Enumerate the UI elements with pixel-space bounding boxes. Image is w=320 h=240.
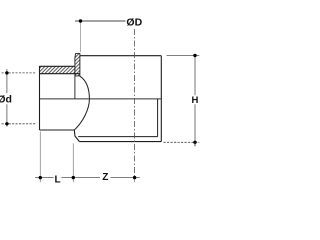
socket inner bottom	[78, 136, 157, 138]
hatched top wall band of spigot	[40, 66, 75, 73]
svg-text:L: L	[55, 174, 61, 185]
hatched collar section	[75, 54, 80, 76]
Ød bottom dot	[5, 122, 8, 125]
wire pipe outlines	[40, 56, 162, 142]
internal dome arc	[74, 76, 89, 130]
Z right dot	[133, 176, 136, 179]
H dim stub below dot	[194, 142, 196, 146]
centerline stub below Z dot	[134, 177, 136, 182]
svg-text:ØD: ØD	[126, 16, 142, 28]
spigot left end	[39, 66, 41, 130]
svg-text:Ød: Ød	[0, 93, 12, 105]
H top dot	[193, 54, 196, 57]
body bottom outer	[79, 141, 161, 143]
extension line pipe end	[39, 132, 41, 183]
ØD leader dot	[79, 19, 82, 22]
axis section line	[40, 98, 162, 100]
svg-text:Z: Z	[102, 172, 108, 183]
dimension line L / Z	[35, 132, 140, 183]
spigot bottom outer line	[40, 129, 75, 131]
extension line body face	[72, 143, 74, 182]
dimension Ød	[2, 69, 37, 127]
svg-text:H: H	[191, 95, 198, 106]
L/Z shared dot	[72, 176, 75, 179]
dimension ØD leader	[75, 21, 126, 52]
body left face	[74, 76, 76, 99]
centerline	[134, 29, 136, 177]
socket inner right	[157, 99, 159, 137]
L left dot	[39, 176, 42, 179]
Ød top dot	[5, 71, 8, 74]
body right edge	[160, 56, 162, 142]
spigot top outer line	[40, 65, 76, 67]
spigot inner bore line	[40, 73, 80, 75]
chamfer to body bottom	[74, 130, 79, 142]
H bottom dot	[193, 141, 196, 144]
dimension H	[164, 56, 200, 143]
body top	[80, 55, 161, 57]
